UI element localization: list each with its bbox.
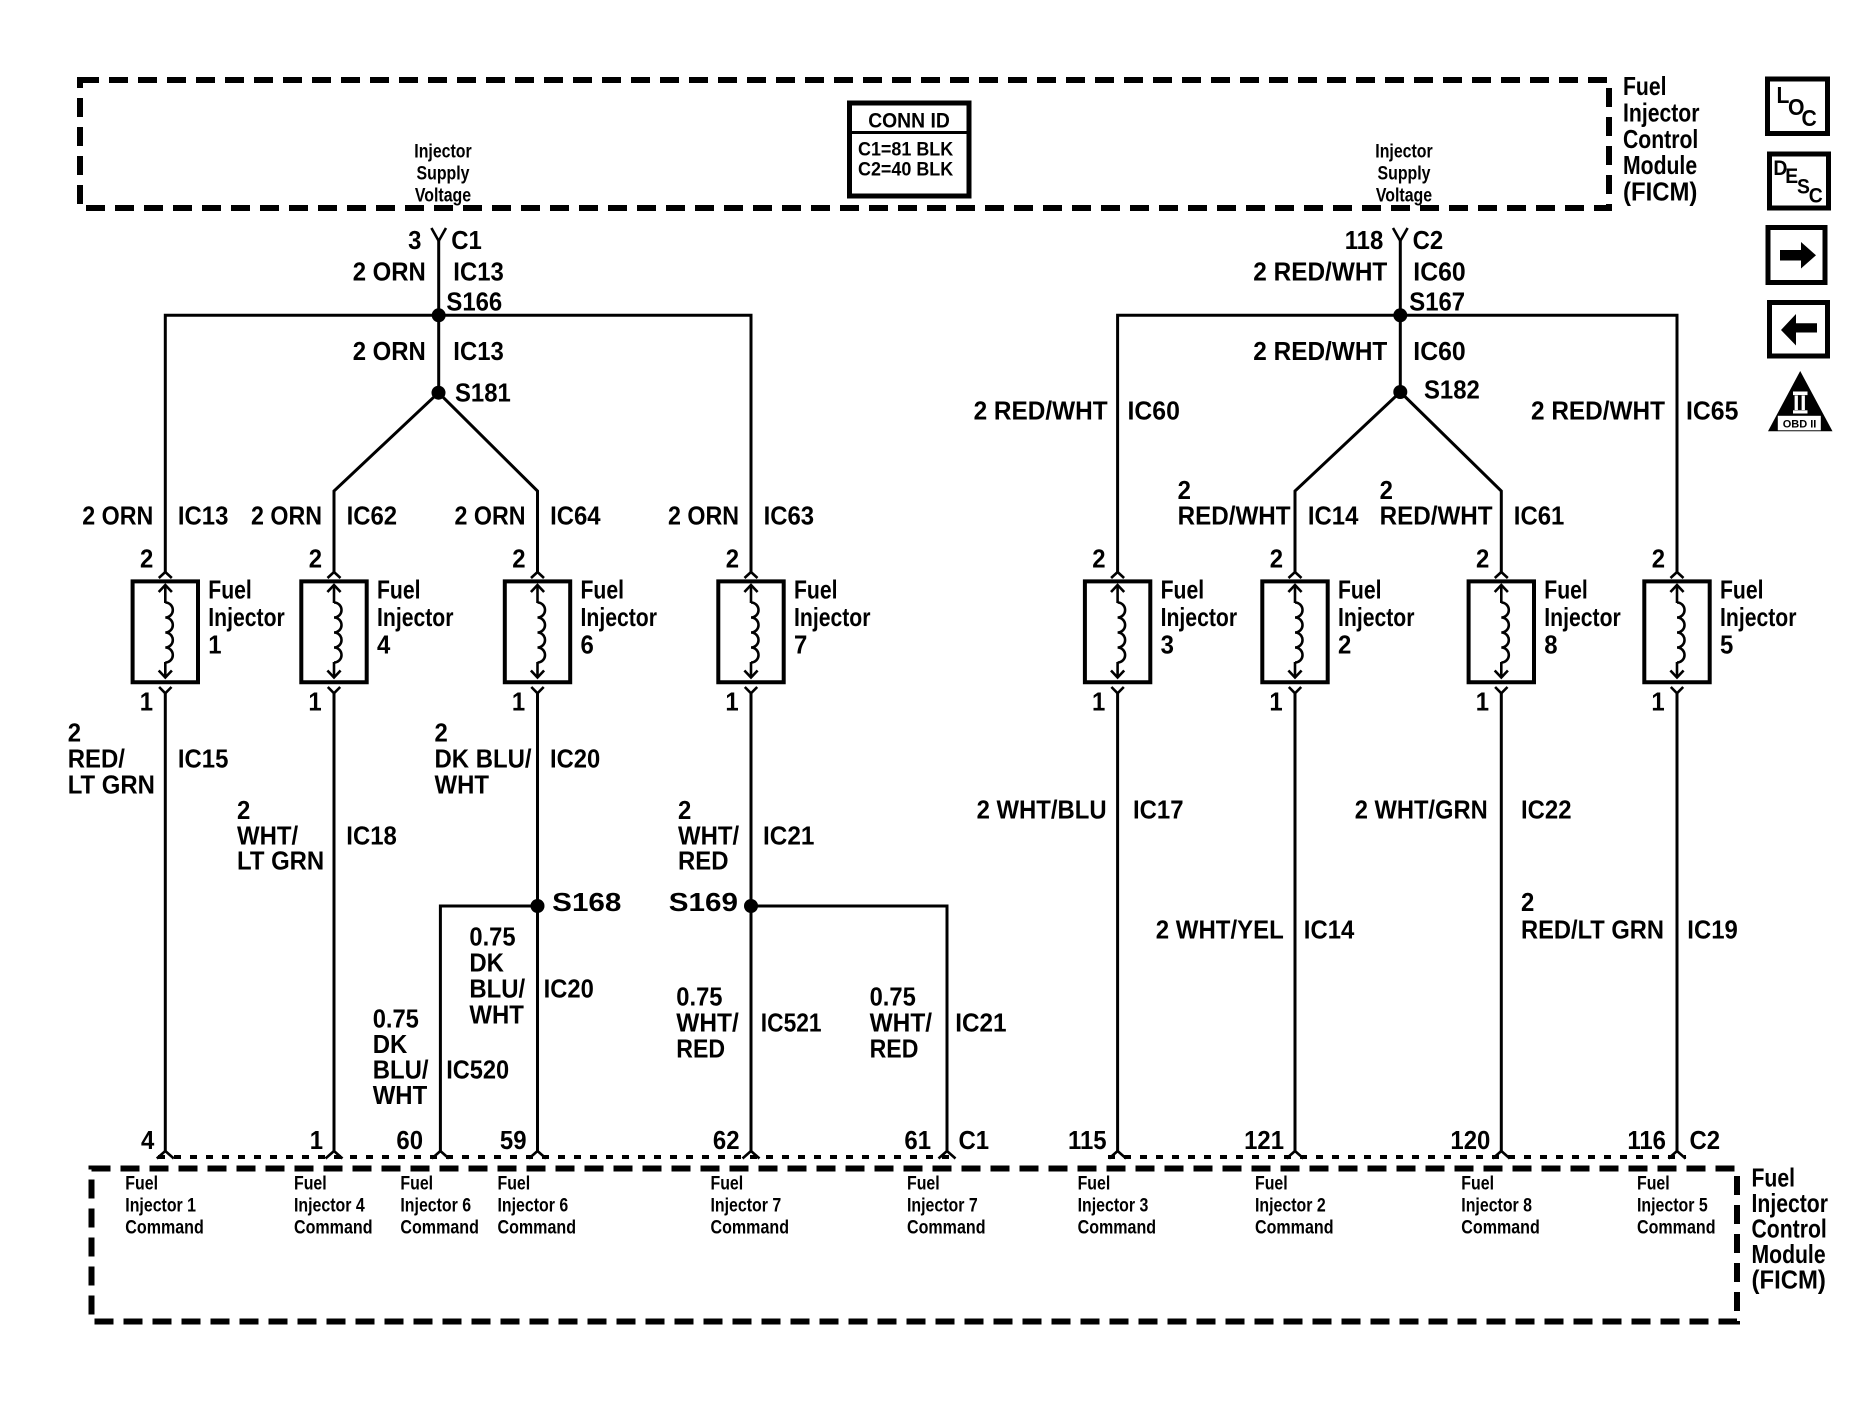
svg-text:Command: Command xyxy=(1255,1217,1334,1239)
svg-text:115: 115 xyxy=(1068,1125,1107,1155)
svg-text:1: 1 xyxy=(1476,687,1489,717)
svg-text:5: 5 xyxy=(1720,630,1733,660)
svg-text:1: 1 xyxy=(140,687,153,717)
svg-text:Command: Command xyxy=(1461,1217,1540,1239)
svg-text:2 WHT/YEL: 2 WHT/YEL xyxy=(1156,915,1284,945)
svg-text:IC13: IC13 xyxy=(178,501,229,531)
svg-text:Injector 6: Injector 6 xyxy=(400,1195,471,1217)
svg-text:2 WHT/GRN: 2 WHT/GRN xyxy=(1355,795,1488,825)
svg-text:Injector: Injector xyxy=(581,602,658,632)
svg-text:2: 2 xyxy=(1338,630,1351,660)
svg-text:2: 2 xyxy=(1092,544,1105,574)
svg-text:C1: C1 xyxy=(451,225,482,255)
svg-text:IC13: IC13 xyxy=(453,257,504,287)
svg-text:Supply: Supply xyxy=(1378,163,1431,185)
svg-text:IC60: IC60 xyxy=(1413,257,1465,287)
svg-text:2 RED/WHT: 2 RED/WHT xyxy=(1531,396,1665,426)
svg-text:Injector: Injector xyxy=(208,602,284,632)
svg-text:IC63: IC63 xyxy=(764,501,815,531)
svg-text:1: 1 xyxy=(1092,687,1105,717)
svg-text:61: 61 xyxy=(904,1125,931,1155)
svg-text:Fuel: Fuel xyxy=(1637,1173,1670,1195)
svg-text:RED: RED xyxy=(676,1034,725,1064)
svg-text:Injector: Injector xyxy=(414,141,472,163)
svg-text:Injector 3: Injector 3 xyxy=(1078,1195,1149,1217)
svg-text:Fuel: Fuel xyxy=(1720,575,1764,605)
svg-text:WHT: WHT xyxy=(373,1080,428,1110)
svg-text:2: 2 xyxy=(1476,544,1489,574)
svg-text:Fuel: Fuel xyxy=(294,1173,327,1195)
svg-text:WHT: WHT xyxy=(469,1000,524,1030)
svg-text:Injector: Injector xyxy=(377,602,454,632)
svg-text:2 ORN: 2 ORN xyxy=(82,501,153,531)
svg-text:6: 6 xyxy=(581,630,594,660)
svg-text:IC18: IC18 xyxy=(346,821,397,851)
svg-text:2: 2 xyxy=(1652,544,1665,574)
svg-text:C: C xyxy=(1802,105,1817,131)
svg-text:Fuel: Fuel xyxy=(1544,575,1588,605)
svg-text:Command: Command xyxy=(907,1217,986,1239)
svg-text:RED/LT GRN: RED/LT GRN xyxy=(1521,915,1664,945)
svg-text:LT GRN: LT GRN xyxy=(237,846,324,876)
svg-text:Injector 5: Injector 5 xyxy=(1637,1195,1708,1217)
svg-text:1: 1 xyxy=(208,630,221,660)
svg-text:S168: S168 xyxy=(552,887,621,917)
svg-text:C1: C1 xyxy=(959,1125,990,1155)
svg-text:Injector: Injector xyxy=(1544,602,1621,632)
svg-text:Injector 7: Injector 7 xyxy=(907,1195,978,1217)
svg-text:WHT: WHT xyxy=(435,770,490,800)
svg-text:Injector 6: Injector 6 xyxy=(498,1195,569,1217)
svg-text:Injector: Injector xyxy=(1375,141,1433,163)
svg-text:60: 60 xyxy=(396,1125,423,1155)
svg-text:S167: S167 xyxy=(1409,287,1465,317)
svg-text:CONN ID: CONN ID xyxy=(868,110,950,133)
svg-text:C2: C2 xyxy=(1690,1125,1721,1155)
svg-text:IC22: IC22 xyxy=(1521,795,1572,825)
svg-text:121: 121 xyxy=(1244,1125,1284,1155)
svg-text:IC14: IC14 xyxy=(1304,915,1355,945)
svg-text:1: 1 xyxy=(308,687,321,717)
svg-text:IC17: IC17 xyxy=(1133,795,1184,825)
svg-text:S169: S169 xyxy=(669,887,738,917)
svg-text:Injector 2: Injector 2 xyxy=(1255,1195,1326,1217)
svg-text:1: 1 xyxy=(310,1125,323,1155)
svg-text:Fuel: Fuel xyxy=(377,575,421,605)
svg-text:1: 1 xyxy=(725,687,738,717)
svg-text:C2: C2 xyxy=(1413,225,1444,255)
svg-text:2: 2 xyxy=(1521,887,1534,917)
svg-text:IC65: IC65 xyxy=(1686,396,1738,426)
svg-text:IC15: IC15 xyxy=(178,744,229,774)
svg-text:IC520: IC520 xyxy=(446,1055,509,1085)
svg-text:2 RED/WHT: 2 RED/WHT xyxy=(1253,336,1387,366)
svg-text:2: 2 xyxy=(512,544,525,574)
svg-text:OBD II: OBD II xyxy=(1783,419,1817,431)
svg-text:RED: RED xyxy=(870,1034,919,1064)
svg-text:IC60: IC60 xyxy=(1413,336,1465,366)
svg-text:Command: Command xyxy=(498,1217,577,1239)
svg-text:2 ORN: 2 ORN xyxy=(668,501,739,531)
svg-text:59: 59 xyxy=(500,1125,527,1155)
svg-text:IC62: IC62 xyxy=(347,501,398,531)
svg-text:2: 2 xyxy=(1270,544,1283,574)
svg-text:7: 7 xyxy=(794,630,807,660)
svg-text:2: 2 xyxy=(140,544,153,574)
svg-text:RED: RED xyxy=(678,846,729,876)
svg-text:(FICM): (FICM) xyxy=(1623,177,1697,207)
svg-text:4: 4 xyxy=(141,1125,155,1155)
svg-text:Injector: Injector xyxy=(1338,602,1415,632)
svg-text:Fuel: Fuel xyxy=(1161,575,1205,605)
svg-text:2 ORN: 2 ORN xyxy=(251,501,322,531)
svg-text:8: 8 xyxy=(1544,630,1557,660)
svg-text:62: 62 xyxy=(713,1125,740,1155)
svg-text:IC19: IC19 xyxy=(1687,915,1738,945)
svg-text:116: 116 xyxy=(1627,1125,1666,1155)
svg-text:Fuel: Fuel xyxy=(400,1173,433,1195)
svg-text:Fuel: Fuel xyxy=(581,575,625,605)
svg-text:RED/WHT: RED/WHT xyxy=(1178,501,1291,531)
svg-text:2 RED/WHT: 2 RED/WHT xyxy=(1253,257,1387,287)
svg-text:Fuel: Fuel xyxy=(1461,1173,1494,1195)
svg-text:2 ORN: 2 ORN xyxy=(353,336,426,366)
svg-text:Fuel: Fuel xyxy=(1255,1173,1288,1195)
svg-text:1: 1 xyxy=(1651,687,1664,717)
svg-text:IC61: IC61 xyxy=(1514,501,1565,531)
svg-text:IC14: IC14 xyxy=(1308,501,1359,531)
svg-text:Injector 4: Injector 4 xyxy=(294,1195,365,1217)
svg-text:2 ORN: 2 ORN xyxy=(353,257,426,287)
svg-text:C1=81 BLK: C1=81 BLK xyxy=(858,139,953,161)
svg-text:2 ORN: 2 ORN xyxy=(455,501,526,531)
svg-text:Voltage: Voltage xyxy=(415,185,471,207)
svg-text:IC21: IC21 xyxy=(763,821,814,851)
svg-text:Command: Command xyxy=(1078,1217,1157,1239)
svg-text:Fuel: Fuel xyxy=(1078,1173,1111,1195)
svg-text:Fuel: Fuel xyxy=(711,1173,744,1195)
svg-text:1: 1 xyxy=(1269,687,1282,717)
svg-text:Supply: Supply xyxy=(417,163,470,185)
svg-text:S182: S182 xyxy=(1424,375,1480,405)
svg-text:2: 2 xyxy=(726,544,739,574)
svg-text:IC13: IC13 xyxy=(453,336,504,366)
svg-text:LT GRN: LT GRN xyxy=(68,770,155,800)
svg-text:1: 1 xyxy=(512,687,525,717)
svg-text:Injector: Injector xyxy=(1720,602,1797,632)
svg-text:IC521: IC521 xyxy=(761,1008,822,1038)
svg-text:120: 120 xyxy=(1450,1125,1490,1155)
svg-text:Injector 8: Injector 8 xyxy=(1461,1195,1532,1217)
svg-text:S166: S166 xyxy=(446,287,502,317)
svg-text:IC60: IC60 xyxy=(1128,396,1180,426)
svg-text:Fuel: Fuel xyxy=(498,1173,531,1195)
svg-text:C2=40 BLK: C2=40 BLK xyxy=(858,159,953,181)
svg-text:Command: Command xyxy=(294,1217,373,1239)
svg-text:2 RED/WHT: 2 RED/WHT xyxy=(974,396,1108,426)
svg-text:Fuel: Fuel xyxy=(208,575,252,605)
svg-text:Command: Command xyxy=(400,1217,479,1239)
svg-text:RED/WHT: RED/WHT xyxy=(1380,501,1493,531)
svg-text:Injector: Injector xyxy=(794,602,871,632)
svg-text:3: 3 xyxy=(408,225,421,255)
svg-text:Fuel: Fuel xyxy=(907,1173,940,1195)
svg-text:IC20: IC20 xyxy=(550,744,600,774)
svg-text:IC64: IC64 xyxy=(550,501,601,531)
svg-text:IC21: IC21 xyxy=(955,1008,1006,1038)
svg-text:118: 118 xyxy=(1345,225,1384,255)
svg-text:C: C xyxy=(1809,185,1823,208)
svg-text:4: 4 xyxy=(377,630,391,660)
svg-text:Injector 1: Injector 1 xyxy=(125,1195,196,1217)
svg-text:Fuel: Fuel xyxy=(794,575,838,605)
svg-text:S181: S181 xyxy=(455,378,511,408)
svg-text:2 WHT/BLU: 2 WHT/BLU xyxy=(977,795,1107,825)
svg-text:Fuel: Fuel xyxy=(125,1173,158,1195)
svg-text:3: 3 xyxy=(1161,630,1174,660)
svg-text:Command: Command xyxy=(711,1217,790,1239)
svg-text:Command: Command xyxy=(1637,1217,1716,1239)
svg-text:Injector: Injector xyxy=(1161,602,1238,632)
svg-text:Voltage: Voltage xyxy=(1376,185,1432,207)
svg-text:Command: Command xyxy=(125,1217,204,1239)
svg-text:Fuel: Fuel xyxy=(1338,575,1382,605)
svg-text:(FICM): (FICM) xyxy=(1752,1265,1826,1295)
svg-text:Injector 7: Injector 7 xyxy=(711,1195,782,1217)
svg-text:2: 2 xyxy=(309,544,322,574)
svg-text:IC20: IC20 xyxy=(544,974,594,1004)
